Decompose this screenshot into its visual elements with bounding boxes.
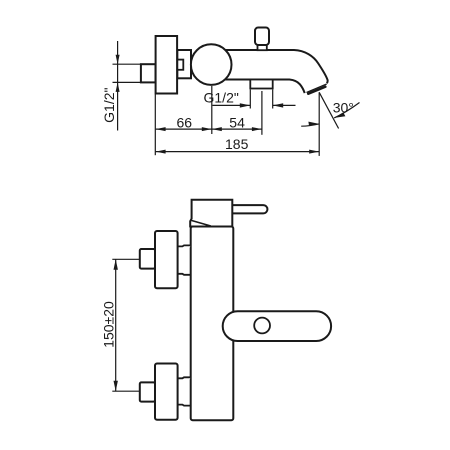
svg-text:54: 54 [229,114,245,130]
ext line outlet left edge [249,90,251,109]
lever bar [232,205,267,213]
arrow up at bottom tick [116,82,120,92]
arrow down at top tick [116,55,120,64]
dim line vertical [115,259,117,391]
ext line handle centre [211,86,213,134]
ext tick upper [112,258,140,260]
ext tick top [113,63,141,65]
svg-text:185: 185 [225,136,249,152]
dim line 66 [156,128,212,130]
body (front view) [191,227,234,421]
svg-text:G1/2": G1/2" [101,88,117,123]
mid connector (body to wall flange) [177,50,191,78]
upper union connector [178,245,191,274]
lower escutcheon [155,364,178,420]
arrow up [114,259,118,270]
svg-text:66: 66 [177,114,193,130]
ext line outlet right edge [272,90,274,109]
spout set screw circle [254,318,270,334]
dim line vertical [117,41,119,131]
ext line escutcheon left [154,95,156,156]
lower union connector [178,377,191,405]
handle cap tilt line [191,220,211,226]
lower wall square [140,382,155,401]
wall union nut (top view) [141,64,156,82]
leader right with left arrow [273,104,296,106]
angle arc right part [334,103,359,118]
dim line 54 [212,128,262,130]
handle cap (front view) [190,200,232,227]
spout tip face line [307,84,327,93]
ext tick lower [112,390,140,392]
svg-text:150±20: 150±20 [101,301,117,348]
spout aerator (dark band) [308,87,325,94]
upper wall square [140,249,155,269]
leader left with right arrow [213,104,251,106]
spout bottom outline [212,80,305,94]
ext line outlet centre [261,91,263,135]
wall escutcheon (top view) [156,36,178,94]
shower hose connector (below spout) [250,80,272,89]
mid connector notch [177,60,183,70]
angle arc left part [301,124,319,126]
arrow down [114,381,118,392]
vertical reference line from spout tip [318,92,320,156]
diverter knob stem [258,45,267,50]
dim line 185 [156,151,320,153]
spout top outline [212,50,328,83]
handle cap circle [191,44,232,85]
slanted 30deg line [319,92,338,128]
upper escutcheon [155,231,178,288]
spout (front view, stadium) [223,311,331,341]
svg-text:30°: 30° [333,99,354,115]
svg-text:G1/2": G1/2" [204,90,239,106]
ext tick bottom [113,81,141,83]
diverter knob [255,28,269,46]
